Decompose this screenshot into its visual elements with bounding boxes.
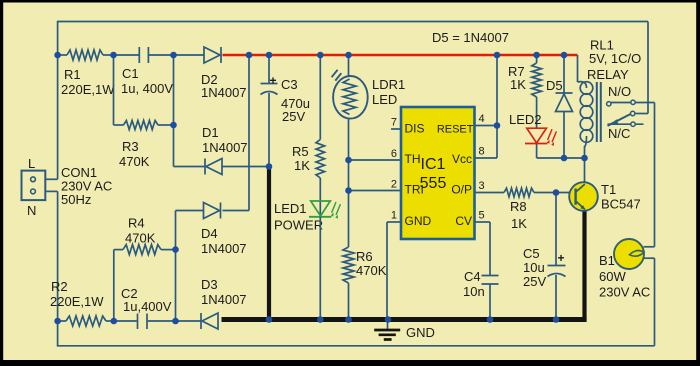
pin 2 TRI <box>391 179 424 197</box>
svg-text:R5: R5 <box>292 144 309 159</box>
label LED1 POWER <box>274 201 323 233</box>
diode D5 <box>556 93 573 112</box>
label N <box>27 203 36 218</box>
svg-text:1u, 400V: 1u, 400V <box>121 81 173 96</box>
wire C3 top <box>268 55 270 84</box>
svg-text:1K: 1K <box>510 77 526 92</box>
label R2 <box>50 279 104 309</box>
resistor R2 <box>66 316 106 326</box>
label D5 = 1N4007 <box>432 30 509 45</box>
label RL1 <box>587 38 641 83</box>
label C4 <box>463 269 485 299</box>
svg-text:220E,1W: 220E,1W <box>50 294 104 309</box>
label R6 <box>356 249 387 278</box>
svg-text:230V AC: 230V AC <box>599 285 650 300</box>
wire D4 left <box>176 210 204 212</box>
wire R6 to ground bus <box>348 283 350 320</box>
resistor R4 <box>123 245 161 255</box>
wire D1 row left <box>174 166 206 168</box>
wire positive rail (red) <box>223 54 578 57</box>
wire R4 left stub <box>114 249 123 251</box>
wire CON1 L to left vertical <box>45 178 57 180</box>
wire R7 to LED2 <box>536 97 538 128</box>
wire D5 top <box>563 55 565 93</box>
label CON1 <box>61 165 112 207</box>
resistor R1 <box>67 50 103 60</box>
wire R7 top <box>536 55 538 63</box>
capacitor C2 <box>138 314 148 330</box>
label N/C <box>608 126 630 141</box>
wire R1 row segments <box>58 54 204 56</box>
resistor R7 <box>532 63 542 97</box>
wire N/O contact down to bulb <box>644 103 655 247</box>
svg-text:1u,400V: 1u,400V <box>123 299 172 314</box>
svg-text:2: 2 <box>391 179 397 191</box>
svg-text:60W: 60W <box>599 269 626 284</box>
label D1 <box>202 125 248 155</box>
wire D5 bottom <box>563 112 565 159</box>
svg-text:R4: R4 <box>128 216 145 231</box>
svg-text:1: 1 <box>391 210 397 222</box>
svg-text:470K: 470K <box>356 263 387 278</box>
svg-text:POWER: POWER <box>274 218 323 233</box>
wire C5 column <box>555 193 557 266</box>
label C5 <box>523 246 546 289</box>
wire LDR top <box>348 55 350 77</box>
node pole contact <box>631 111 635 115</box>
label B1 <box>599 253 650 300</box>
svg-text:10n: 10n <box>463 284 485 299</box>
wire O/P stub <box>475 192 505 194</box>
label C1 <box>121 66 173 96</box>
wire R3 left vertical <box>114 55 124 125</box>
svg-text:1K: 1K <box>511 216 527 231</box>
svg-text:Vcc: Vcc <box>452 152 472 166</box>
svg-text:10u: 10u <box>523 260 545 275</box>
relay arm <box>608 114 631 126</box>
svg-text:O/P: O/P <box>451 183 472 197</box>
resistor R5 <box>316 140 325 179</box>
label IC1 555 <box>420 156 447 192</box>
svg-text:R8: R8 <box>510 199 527 214</box>
svg-text:1N4007: 1N4007 <box>201 241 247 256</box>
svg-text:R6: R6 <box>356 249 373 264</box>
connector CON1 <box>22 171 46 201</box>
svg-text:LDR1: LDR1 <box>372 77 405 92</box>
label LDR1 LED <box>372 77 405 107</box>
resistor R3 <box>124 121 159 130</box>
svg-text:6: 6 <box>391 148 397 160</box>
wire D1 row right <box>222 166 269 168</box>
pin 8 Vcc <box>452 146 497 167</box>
capacitor C5 (polarized) <box>548 251 566 277</box>
svg-text:N: N <box>27 203 36 218</box>
capacitor C1 <box>139 47 148 63</box>
label D4 <box>201 226 247 256</box>
capacitor C3 (polarized) <box>261 74 278 95</box>
svg-text:5: 5 <box>479 210 485 222</box>
svg-text:C4: C4 <box>464 269 481 284</box>
svg-text:CV: CV <box>455 214 472 228</box>
resistor R8 <box>504 188 534 197</box>
svg-text:N/O: N/O <box>608 84 631 99</box>
LED LED1 (green) <box>309 201 340 219</box>
resistor R6 <box>343 247 354 283</box>
label R5 <box>292 144 310 173</box>
diode D2 <box>204 47 221 63</box>
wire TH pin6 <box>349 159 402 161</box>
wire CON1 N to left vertical <box>45 190 57 192</box>
svg-text:R3: R3 <box>122 139 139 154</box>
svg-text:50Hz: 50Hz <box>61 192 91 207</box>
svg-text:D1: D1 <box>202 125 219 140</box>
capacitor C4 <box>482 276 499 285</box>
wire coil feed <box>577 55 579 82</box>
svg-text:8: 8 <box>479 146 485 158</box>
svg-text:LED: LED <box>372 92 397 107</box>
wire pin4/8 riser to rail <box>496 55 498 158</box>
wire C3 bottom <box>268 93 270 167</box>
wire R8 to T1 base <box>534 192 576 194</box>
wire N/O contact line <box>611 102 655 104</box>
svg-text:+: + <box>558 251 565 265</box>
node N/C contact <box>631 122 635 126</box>
label C2 <box>121 286 172 314</box>
svg-text:220E,1W: 220E,1W <box>61 82 115 97</box>
wire black vertical from D1/C3 node <box>267 167 271 320</box>
wire coil bottom <box>584 146 586 183</box>
wire R2 row segments <box>58 320 201 322</box>
svg-text:D3: D3 <box>201 277 218 292</box>
svg-text:1K: 1K <box>294 158 310 173</box>
svg-text:D4: D4 <box>201 226 218 241</box>
svg-text:1N4007: 1N4007 <box>202 140 248 155</box>
wire R5 top <box>319 55 321 140</box>
label T1 BC547 <box>601 182 641 212</box>
LED LED2 (red) <box>525 128 556 146</box>
wire C5 to ground bus <box>555 275 557 320</box>
label R1 <box>61 67 115 97</box>
wire TRI pin2 <box>349 190 402 192</box>
label C3 <box>281 77 310 124</box>
wire ground bus (black) <box>222 317 587 322</box>
svg-text:7: 7 <box>391 117 397 129</box>
ground GND <box>374 320 435 341</box>
svg-text:TH: TH <box>405 152 421 166</box>
svg-text:L: L <box>28 156 35 171</box>
wire R4 left vertical <box>113 250 115 321</box>
label L <box>28 156 35 171</box>
svg-text:B1: B1 <box>599 253 615 268</box>
relay core <box>597 82 601 142</box>
svg-text:C5: C5 <box>523 246 540 261</box>
svg-text:+: + <box>270 74 277 88</box>
svg-text:4: 4 <box>479 113 485 125</box>
node junctions <box>54 52 588 325</box>
label R7 <box>508 64 526 92</box>
svg-text:RESET: RESET <box>437 124 474 136</box>
pin 7 DIS <box>391 117 425 136</box>
diode D4 <box>204 203 221 219</box>
relay RL1 coil <box>578 82 593 147</box>
wire right return vertical to bulb <box>644 258 655 346</box>
pin 4 RESET <box>437 113 497 136</box>
label D2 <box>201 72 247 100</box>
svg-text:470K: 470K <box>125 231 156 246</box>
label LED2 <box>509 112 542 127</box>
pin 6 TH <box>391 148 421 166</box>
wire D4 cathode riser <box>223 55 250 211</box>
wire pole riser <box>635 22 648 114</box>
svg-text:N/C: N/C <box>608 126 630 141</box>
wire LED1 to ground bus <box>319 217 321 320</box>
svg-text:T1: T1 <box>601 182 616 197</box>
svg-text:TRI: TRI <box>405 183 424 197</box>
label D5 <box>546 78 563 93</box>
wire left vertical upper (L node) <box>57 21 59 180</box>
wire R5 to LED1 <box>319 178 321 217</box>
pin 3 O/P <box>451 180 484 197</box>
svg-text:25V: 25V <box>282 109 305 124</box>
svg-text:3: 3 <box>479 180 485 192</box>
label R8 <box>510 199 527 231</box>
wire top rail L <box>58 21 648 23</box>
LDR LDR1 <box>332 70 368 119</box>
svg-text:25V: 25V <box>523 274 546 289</box>
wire bottom return N <box>57 345 655 347</box>
node N/O terminal <box>607 100 636 106</box>
wire pin1 GND down <box>386 222 388 320</box>
svg-text:GND: GND <box>405 214 432 228</box>
svg-text:C1: C1 <box>122 66 139 81</box>
svg-text:C3: C3 <box>281 77 298 92</box>
wire T1 emitter to ground bus (black) <box>582 212 586 320</box>
wire CV down to C4 <box>489 222 491 276</box>
svg-text:R1: R1 <box>64 67 81 82</box>
svg-text:LED1: LED1 <box>274 201 307 216</box>
wire left vertical lower (N node) <box>57 191 59 345</box>
wire C4 to ground bus <box>489 284 491 320</box>
svg-text:1N4007: 1N4007 <box>201 85 247 100</box>
svg-text:D5 = 1N4007: D5 = 1N4007 <box>432 30 509 45</box>
wire C1-D2 junction vertical <box>173 55 175 167</box>
svg-text:RELAY: RELAY <box>587 67 629 82</box>
wire R3 right <box>158 124 174 126</box>
svg-text:GND: GND <box>406 325 435 340</box>
svg-text:5V, 1C/O: 5V, 1C/O <box>589 51 641 66</box>
op-amp U1 IC1 555 body <box>401 107 475 239</box>
svg-text:D5: D5 <box>546 78 563 93</box>
lamp B1 <box>614 239 644 269</box>
wire LED2 bottom to node <box>537 144 585 159</box>
svg-text:R2: R2 <box>51 279 68 294</box>
label R4 <box>125 216 156 246</box>
wire D4-R4 vertical <box>175 211 177 322</box>
label N/O <box>608 84 631 99</box>
svg-text:1N4007: 1N4007 <box>201 292 247 307</box>
diode D1 <box>205 159 222 175</box>
diode D3 <box>201 313 218 329</box>
wire N/C line <box>608 123 644 125</box>
label D3 <box>201 277 247 307</box>
svg-text:470K: 470K <box>119 154 150 169</box>
pin 1 GND <box>387 210 432 229</box>
wire LDR to TH/TRI/R6 <box>348 119 350 247</box>
pin 5 CV <box>455 210 490 229</box>
svg-text:LED2: LED2 <box>509 112 542 127</box>
svg-text:DIS: DIS <box>405 122 425 136</box>
svg-text:IC1: IC1 <box>421 156 446 173</box>
wire R4 right stub <box>161 249 176 251</box>
transistor Q1 T1 <box>569 182 598 211</box>
label R3 <box>119 139 150 169</box>
svg-text:BC547: BC547 <box>601 197 641 212</box>
